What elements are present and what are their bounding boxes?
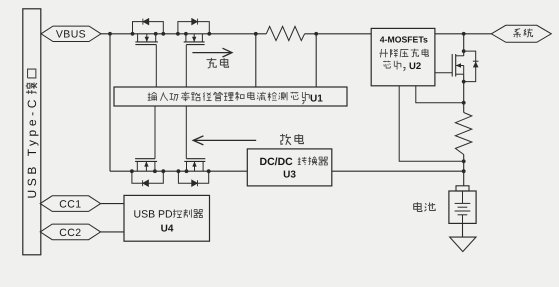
ground symbol [450,237,476,252]
junction VBUS rail [108,32,112,36]
transistor Q1 with body diode [131,19,166,87]
net label 系统 (system) [491,25,551,42]
svg-text:CC2: CC2 [59,227,81,239]
resistor R2 [455,113,471,155]
net label CC2 [40,224,100,240]
junction system rail at Q5 tap [462,32,466,36]
svg-text:CC1: CC1 [59,199,81,211]
IC U2 4-MOSFETs buck-boost charger [371,28,435,85]
junction battery rail node [462,169,466,173]
arrow 充电 (charge direction) [192,48,232,68]
wire battery to ground [462,223,464,237]
net label CC1 [40,196,100,212]
wire Q5 source down to R2 [463,74,465,112]
svg-text:VBUS: VBUS [56,29,86,41]
transistor Q2 with body diode [176,19,211,87]
transistor Q3 with body diode [130,106,165,186]
svg-text:U2: U2 [409,61,421,72]
wire R2 bottom lead [463,155,465,186]
wire VBUS rail right segment [305,33,372,35]
wire bottom rail from U3 to battery node [332,170,464,172]
svg-text:USB PD: USB PD [134,209,174,221]
junction R2 bottom node [462,159,466,163]
wire rail tap to U1 pin at x=316 [315,34,317,87]
junction rail tap x=255 [254,32,258,36]
battery BT1 电池 [449,186,476,224]
wire U2 pin to R2 top node [416,86,464,103]
wire CC1 to U4 [101,203,124,205]
svg-text:U3: U3 [283,169,296,180]
transistor Q5 with body diode [435,49,479,83]
arrow 放电 (discharge direction) [193,134,303,145]
wire U2 pin to battery positive node [399,86,464,162]
wire bottom rail from left riser to U3 [110,170,247,172]
svg-text:USB Type-C: USB Type-C [25,96,39,198]
transistor Q4 with body diode [177,106,211,186]
IC U1 input power path management and current sense [114,87,347,106]
wire U2 output rail to system tag [435,33,491,35]
svg-text:U4: U4 [161,223,174,234]
svg-text:DC/DC: DC/DC [260,156,294,168]
wire rail tap to U1 pin at x=255 [255,34,257,87]
wire system rail to Q5 drain [463,34,465,56]
net label VBUS [41,26,101,41]
IC U4 USB PD controller [124,195,210,241]
junction R2 top node [462,101,466,105]
wire CC2 to U4 [101,231,124,233]
IC U3 DC/DC converter [247,149,331,186]
svg-text:4-MOSFETs: 4-MOSFETs [380,35,428,45]
wire VBUS rail left segment [101,33,266,35]
junction rail tap x=316 [314,32,318,36]
wire from VBUS rail down to bottom rail [109,34,111,171]
resistor R1 current sense [266,26,304,40]
connector J1 USB Type-C receptacle [23,9,41,255]
svg-text:U1: U1 [310,93,323,104]
label 电池 (battery) [414,202,435,211]
